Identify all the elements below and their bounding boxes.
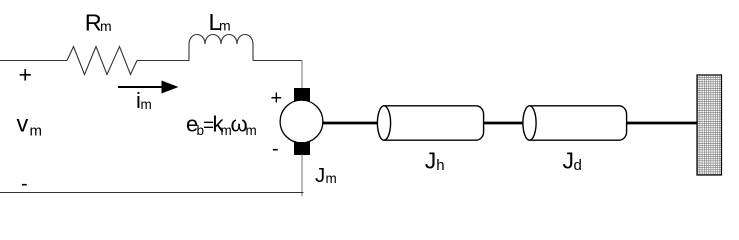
svg-text:-: - bbox=[272, 138, 279, 160]
inductor Lm bbox=[189, 35, 253, 61]
wire inductor to corner bbox=[253, 60, 303, 62]
svg-text:m: m bbox=[100, 18, 112, 34]
resistor Rm bbox=[67, 47, 137, 75]
current arrow im bbox=[118, 81, 179, 94]
svg-text:+: + bbox=[271, 88, 283, 110]
label Jh bbox=[425, 147, 445, 174]
svg-text:J: J bbox=[315, 164, 325, 187]
svg-text:d: d bbox=[574, 157, 582, 174]
shaft motor to Jh bbox=[322, 122, 381, 125]
svg-text:v: v bbox=[17, 111, 29, 137]
inertia cylinder Jh bbox=[377, 106, 483, 140]
svg-text:m: m bbox=[30, 122, 43, 139]
motor - polarity label bbox=[272, 138, 279, 160]
svg-text:m: m bbox=[246, 123, 257, 138]
svg-text:m: m bbox=[141, 97, 152, 112]
wire motor - terminal down to corner bbox=[301, 155, 303, 197]
wire corner down to motor + terminal bbox=[301, 60, 303, 89]
shaft Jh to Jd bbox=[484, 122, 526, 125]
motor terminal - (black square, bottom) bbox=[294, 142, 310, 155]
wire top-left (from + terminal to resistor) bbox=[0, 60, 67, 62]
svg-text:J: J bbox=[425, 147, 437, 173]
back-EMF label eb=km wm bbox=[186, 111, 257, 138]
inertia cylinder Jd bbox=[523, 106, 627, 140]
motor armature circle Jm bbox=[280, 100, 323, 143]
label Jd bbox=[563, 147, 582, 174]
svg-text:h: h bbox=[436, 157, 444, 174]
label Rm bbox=[85, 10, 112, 36]
wire resistor to inductor bbox=[137, 60, 189, 62]
svg-text:+: + bbox=[19, 62, 32, 88]
svg-text:-: - bbox=[21, 173, 28, 195]
shaft Jd to wall bbox=[627, 122, 697, 125]
motor + polarity label bbox=[271, 88, 283, 110]
motor terminal + (black square, top) bbox=[294, 88, 310, 101]
minus terminal label (left) bbox=[21, 173, 28, 195]
label Lm bbox=[209, 9, 231, 35]
svg-text:m: m bbox=[219, 17, 231, 33]
label im bbox=[136, 88, 152, 113]
wire bottom rail (corner to - terminal) bbox=[0, 192, 304, 194]
svg-text:m: m bbox=[326, 171, 337, 186]
svg-text:J: J bbox=[563, 147, 575, 173]
label vm (source voltage) bbox=[17, 111, 43, 140]
plus terminal label (left) bbox=[19, 62, 32, 88]
wall fixed support (hatched) bbox=[697, 75, 722, 175]
label Jm bbox=[315, 164, 337, 187]
